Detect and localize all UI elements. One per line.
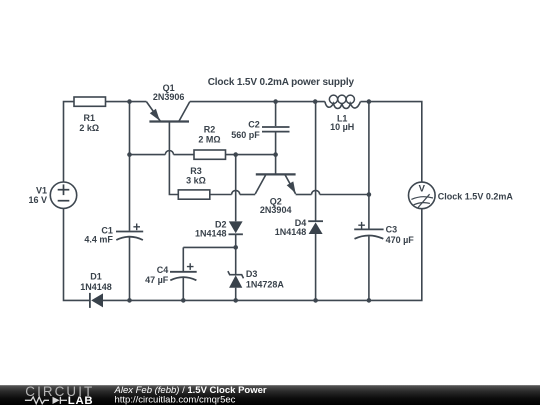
svg-text:10 µH: 10 µH <box>330 122 354 132</box>
svg-text:C4: C4 <box>157 265 169 275</box>
svg-text:1N4148: 1N4148 <box>80 282 112 292</box>
svg-text:1N4148: 1N4148 <box>195 229 227 239</box>
svg-text:V: V <box>419 184 426 195</box>
svg-text:LAB: LAB <box>68 395 94 405</box>
svg-text:Clock 1.5V 0.2mA: Clock 1.5V 0.2mA <box>438 192 514 202</box>
svg-text:C2: C2 <box>248 120 260 130</box>
svg-text:http://circuitlab.com/cmqr5ec: http://circuitlab.com/cmqr5ec <box>115 395 236 405</box>
svg-text:V1: V1 <box>36 185 47 195</box>
svg-text:16 V: 16 V <box>28 195 47 205</box>
svg-text:560 pF: 560 pF <box>231 130 260 140</box>
svg-text:2 MΩ: 2 MΩ <box>198 134 220 144</box>
svg-text:3 kΩ: 3 kΩ <box>186 176 206 186</box>
svg-text:470 µF: 470 µF <box>386 235 415 245</box>
svg-text:47 µF: 47 µF <box>145 275 169 285</box>
svg-text:Clock 1.5V 0.2mA power supply: Clock 1.5V 0.2mA power supply <box>208 77 355 88</box>
svg-text:2 kΩ: 2 kΩ <box>79 123 99 133</box>
svg-text:R2: R2 <box>204 125 216 135</box>
svg-text:2N3904: 2N3904 <box>260 205 292 215</box>
svg-text:D1: D1 <box>90 272 102 282</box>
svg-text:R3: R3 <box>190 166 202 176</box>
svg-text:2N3906: 2N3906 <box>153 92 185 102</box>
svg-text:D3: D3 <box>246 269 258 279</box>
svg-text:R1: R1 <box>84 113 96 123</box>
svg-text:1N4728A: 1N4728A <box>246 280 285 290</box>
svg-text:C3: C3 <box>386 225 398 235</box>
svg-text:1N4148: 1N4148 <box>275 227 307 237</box>
svg-text:4.4 mF: 4.4 mF <box>84 235 113 245</box>
